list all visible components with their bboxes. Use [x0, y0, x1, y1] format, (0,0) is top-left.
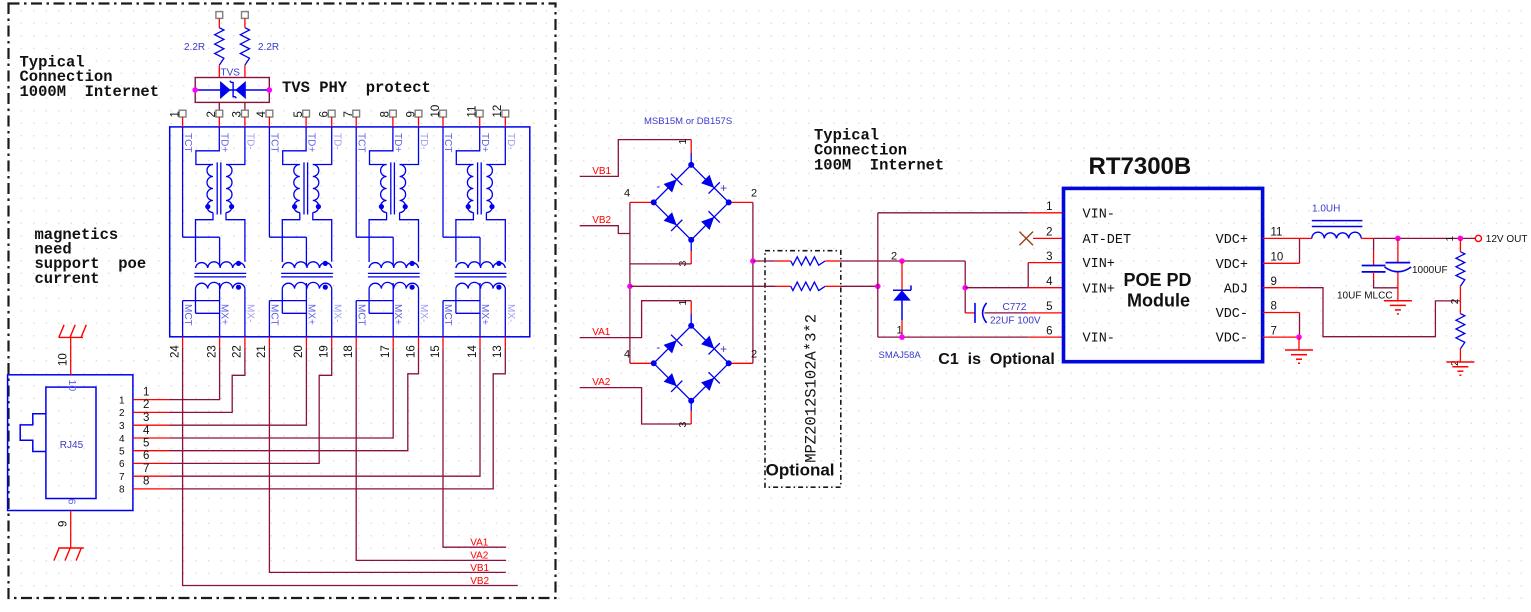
wire bridge plus rail vertical [752, 202, 754, 363]
svg-text:VB1: VB1 [470, 563, 489, 574]
svg-text:2: 2 [143, 399, 149, 411]
wire VIN- vertical [877, 213, 879, 337]
output terminal 12V OUT [1475, 235, 1481, 241]
pin 13 (magnetics bottom) [504, 337, 506, 348]
magnetics module outline [170, 127, 530, 337]
svg-text:9: 9 [58, 521, 70, 527]
svg-text:VIN-: VIN- [1083, 332, 1115, 347]
svg-text:5: 5 [293, 111, 305, 117]
svg-text:MCT: MCT [269, 304, 280, 326]
no-connect X on pin 2 [1019, 232, 1033, 246]
svg-text:5: 5 [119, 447, 125, 458]
svg-text:1: 1 [143, 386, 149, 398]
RJ45 pin 4 stub [133, 437, 170, 439]
svg-text:7: 7 [1271, 325, 1277, 337]
pin 24 (magnetics bottom) [182, 337, 184, 348]
svg-text:2: 2 [1450, 360, 1461, 366]
svg-text:RJ45: RJ45 [60, 440, 84, 451]
chassis ground (bottom) [54, 548, 84, 561]
svg-text:ADJ: ADJ [1224, 282, 1248, 297]
svg-text:2.2R: 2.2R [184, 42, 205, 53]
resistor MPZ1 [776, 260, 791, 262]
svg-text:VIN+: VIN+ [1083, 282, 1115, 297]
svg-text:TD+: TD+ [219, 133, 230, 152]
svg-text:Optional: Optional [766, 461, 835, 480]
svg-text:2: 2 [751, 188, 757, 200]
wire TVS loop to pin3 [244, 102, 246, 111]
svg-text:VA1: VA1 [592, 327, 611, 338]
wire net RJ45-2 to pin22 [170, 348, 245, 413]
RJ45 pin 2 stub [133, 411, 170, 413]
pin 7 stub [1263, 336, 1299, 338]
svg-text:4: 4 [624, 188, 630, 200]
wire net RJ45-4 to pin17 [170, 348, 394, 438]
wire RJ45 pin9 to chassis ground [70, 511, 72, 549]
RJ45 pin 1 stub [133, 399, 170, 401]
svg-text:10: 10 [58, 353, 70, 366]
svg-text:100M Internet: 100M Internet [814, 157, 944, 175]
svg-text:VDC+: VDC+ [1216, 233, 1248, 248]
svg-text:7: 7 [119, 472, 125, 483]
wire terminal to resistor R1 [218, 18, 220, 27]
wire net VA2 from pin18 [356, 348, 506, 561]
pin wire bridge1 right [729, 201, 753, 203]
svg-text:6: 6 [119, 459, 125, 470]
svg-text:MPZ2012S102A*3*2: MPZ2012S102A*3*2 [803, 314, 821, 463]
pin 20 (magnetics bottom) [305, 337, 307, 348]
RJ45 pin 8 stub [133, 488, 170, 490]
svg-text:24: 24 [169, 345, 181, 358]
svg-text:C1 is Optional: C1 is Optional [938, 351, 1054, 368]
svg-text:7: 7 [343, 111, 355, 117]
svg-text:3: 3 [143, 412, 149, 424]
svg-text:3: 3 [1046, 251, 1052, 263]
svg-text:VA1: VA1 [470, 538, 489, 549]
svg-text:4: 4 [143, 425, 150, 437]
wire net RJ45-8 to pin13 [170, 348, 506, 489]
inductor L1 1.0UH [1312, 220, 1363, 222]
svg-text:1: 1 [677, 139, 689, 145]
svg-text:MX-: MX- [418, 304, 429, 322]
earth ground G1 [1285, 350, 1313, 363]
svg-text:TCT: TCT [442, 133, 453, 152]
resistor R1 2.2R [215, 28, 224, 65]
wire net VA1 stub [580, 301, 692, 338]
svg-text:15: 15 [430, 345, 442, 358]
section border (1000M typical connection) [9, 4, 556, 599]
svg-text:10: 10 [66, 380, 78, 392]
svg-text:4: 4 [624, 349, 630, 361]
wire MPZ1 to SMAJ/VIN+ [840, 260, 965, 262]
RJ45 pin 6 stub [133, 462, 170, 464]
pin 18 (magnetics bottom) [355, 337, 357, 348]
svg-text:5: 5 [143, 438, 149, 450]
wire net RJ45-7 to pin14 [170, 348, 481, 477]
pin 17 (magnetics bottom) [392, 337, 394, 348]
svg-text:4: 4 [119, 434, 125, 445]
pin 11 (magnetics top) [476, 110, 483, 117]
wire RJ45 pin10 to chassis ground [70, 337, 72, 374]
svg-text:TCT: TCT [355, 133, 366, 152]
wire minus rail to MPZ2 [627, 284, 633, 290]
terminal square T2 [242, 12, 249, 19]
wire net RJ45-1 to pin23 [170, 348, 220, 400]
svg-text:MX-: MX- [331, 304, 342, 322]
resistor R2 2.2R [240, 28, 249, 65]
pin 9 (magnetics top) [415, 110, 422, 117]
wire VIN- to pin6 [878, 336, 1028, 338]
wire VIN- to pin1 [878, 212, 1028, 214]
bridge rectifier B1 [651, 162, 732, 243]
pin wire bridge2 left [630, 362, 654, 364]
svg-text:VA2: VA2 [592, 377, 611, 388]
TVS diode D5 (bidirectional) [195, 89, 199, 91]
svg-text:8: 8 [380, 111, 392, 117]
pin 12 (magnetics top) [502, 110, 509, 117]
IC U1 RT7300B outline [1064, 188, 1263, 361]
pin 9 stub [1263, 287, 1300, 289]
wire TVS loop to pin2 [218, 102, 220, 111]
pin 22 (magnetics bottom) [244, 337, 246, 348]
svg-text:TD+: TD+ [305, 133, 316, 152]
svg-text:VDC-: VDC- [1216, 307, 1248, 322]
svg-text:TD+: TD+ [392, 133, 403, 152]
svg-text:10: 10 [430, 105, 442, 118]
svg-text:+: + [720, 181, 727, 195]
wire net VB1 stub [580, 140, 692, 177]
transformer T4 [442, 127, 516, 337]
capacitor C2 10UF MLCC [1373, 238, 1375, 252]
svg-text:1000M Internet: 1000M Internet [20, 83, 160, 101]
svg-text:23: 23 [206, 345, 218, 358]
svg-text:1: 1 [897, 325, 903, 337]
wire ADJ feedback [1300, 288, 1461, 337]
svg-text:2: 2 [1450, 298, 1461, 304]
pin 10 stub + jumper [1263, 262, 1300, 264]
pin wire bridge1 bottom [690, 240, 692, 251]
svg-text:10UF MLCC: 10UF MLCC [1337, 290, 1393, 301]
svg-text:1: 1 [1046, 201, 1052, 213]
pin 15 (magnetics bottom) [442, 337, 444, 348]
svg-text:MCT: MCT [442, 304, 453, 326]
svg-text:MCT: MCT [355, 304, 366, 326]
diode D1 SMAJ58A [899, 258, 905, 264]
svg-text:VB1: VB1 [592, 166, 611, 177]
wire net VB2 from pin24 [183, 348, 518, 586]
svg-text:TD+: TD+ [479, 133, 490, 152]
wire net RJ45-3 to pin20 [170, 348, 307, 426]
pin wire bridge1 left [630, 201, 654, 203]
svg-text:8: 8 [119, 485, 125, 496]
capacitor C3 1000UF [1397, 238, 1399, 262]
earth ground G2 [1384, 301, 1412, 314]
TVS loop wire (maroon rectangle) [195, 78, 269, 103]
svg-text:1: 1 [169, 111, 181, 117]
terminal square T1 [216, 12, 223, 19]
wire resistor R2 to TVS loop [244, 65, 246, 77]
svg-text:2: 2 [206, 111, 218, 117]
svg-text:9: 9 [1271, 276, 1277, 288]
bridge rectifier B2 [651, 323, 732, 404]
svg-text:TD-: TD- [331, 133, 342, 150]
svg-text:3: 3 [119, 421, 125, 432]
svg-text:MX-: MX- [245, 304, 256, 322]
svg-text:Module: Module [1127, 291, 1190, 311]
pin wire bridge2 top [690, 301, 692, 314]
RJ45 latch notch [20, 414, 46, 452]
pin 23 (magnetics bottom) [219, 337, 221, 348]
svg-text:3: 3 [677, 422, 689, 428]
svg-text:22: 22 [232, 345, 244, 358]
wire net RJ45-6 to pin19 [170, 348, 332, 464]
pin 3 (magnetics top) [242, 110, 249, 117]
svg-text:MX+: MX+ [305, 304, 316, 325]
capacitor C772 22UF 100V [965, 312, 975, 314]
svg-text:18: 18 [343, 345, 355, 358]
svg-text:4: 4 [1046, 276, 1053, 288]
svg-text:VDC+: VDC+ [1216, 258, 1248, 273]
transformer T1 [182, 127, 256, 337]
svg-text:TD-: TD- [418, 133, 429, 150]
pin 2 (magnetics top) [216, 110, 223, 117]
svg-text:TD-: TD- [505, 133, 516, 150]
wire inductor to output rail [1361, 237, 1373, 239]
svg-text:1: 1 [677, 300, 689, 306]
svg-text:-: - [656, 340, 660, 354]
pin 11 stub [1263, 237, 1300, 239]
wire bridge minus rail vertical [629, 202, 631, 363]
svg-text:MSB15M or DB157S: MSB15M or DB157S [644, 116, 732, 127]
svg-text:RT7300B: RT7300B [1089, 153, 1192, 180]
wire net VB1 from pin21 [269, 348, 505, 573]
svg-text:VIN-: VIN- [1083, 207, 1115, 222]
transformer T3 [355, 127, 429, 337]
svg-text:current: current [35, 270, 100, 288]
svg-text:3: 3 [232, 111, 244, 117]
wire net RJ45-5 to pin16 [170, 348, 419, 451]
pin 8 (magnetics top) [390, 110, 397, 117]
transformer T2 [269, 127, 343, 337]
svg-text:11: 11 [467, 106, 479, 118]
svg-text:AT-DET: AT-DET [1083, 233, 1132, 248]
svg-text:POE PD: POE PD [1123, 270, 1191, 290]
svg-text:2: 2 [891, 250, 897, 262]
wire plus rail to MPZ1 [750, 258, 756, 264]
svg-text:14: 14 [467, 345, 479, 358]
svg-text:2.2R: 2.2R [258, 42, 279, 53]
resistor MPZ2 [776, 285, 791, 287]
svg-text:1: 1 [1445, 236, 1456, 242]
svg-text:6: 6 [1046, 325, 1052, 337]
RJ45 pin 7 stub [133, 475, 170, 477]
wire net VB2 stub [580, 226, 630, 234]
svg-text:TVS PHY protect: TVS PHY protect [282, 79, 431, 97]
svg-text:16: 16 [405, 345, 417, 358]
svg-text:TCT: TCT [269, 133, 280, 152]
svg-text:MCT: MCT [182, 304, 193, 326]
svg-text:7: 7 [143, 463, 149, 475]
svg-text:1.0UH: 1.0UH [1312, 204, 1340, 215]
wire VDC+ to inductor [1300, 237, 1312, 239]
junction dot TVS left [192, 87, 198, 93]
svg-text:VA2: VA2 [470, 551, 489, 562]
chassis ground (top) [59, 325, 87, 338]
svg-text:20: 20 [293, 345, 305, 358]
pin wire bridge2 bottom [690, 401, 692, 411]
svg-text:2: 2 [119, 408, 125, 419]
pin 16 (magnetics bottom) [418, 337, 420, 348]
svg-text:1: 1 [119, 395, 125, 406]
connector RJ45 outline [8, 375, 133, 511]
svg-text:MX+: MX+ [392, 304, 403, 325]
svg-text:5: 5 [1046, 301, 1052, 313]
pin 14 (magnetics bottom) [479, 337, 481, 348]
svg-text:MX+: MX+ [219, 304, 230, 325]
earth ground G3 [1446, 362, 1474, 375]
svg-text:-: - [656, 179, 660, 193]
RJ45 pin 5 stub [133, 450, 170, 452]
resistor R3 (upper divider) [1459, 238, 1461, 251]
pin 4 (magnetics top) [266, 110, 273, 117]
svg-text:6: 6 [143, 450, 149, 462]
svg-text:17: 17 [380, 345, 392, 358]
wire terminal to resistor R2 [244, 18, 246, 27]
svg-text:TD-: TD- [245, 133, 256, 150]
svg-text:8: 8 [1271, 301, 1277, 313]
svg-text:9: 9 [67, 499, 79, 505]
svg-text:VB2: VB2 [470, 576, 489, 587]
wire VIN+ to pins 3-4 jumper [965, 287, 1028, 289]
pin 1 (magnetics top) [179, 110, 186, 117]
wire net VA2 stub [580, 388, 692, 424]
svg-text:11: 11 [1271, 227, 1283, 239]
pin wire bridge1 top [690, 140, 692, 153]
svg-text:12V OUT: 12V OUT [1486, 234, 1528, 245]
wire pin7 to ground [1298, 337, 1300, 350]
svg-text:TCT: TCT [182, 133, 193, 152]
wire VIN+ vertical [964, 261, 966, 313]
resistor R4 (lower divider) [1459, 301, 1461, 314]
svg-text:8: 8 [143, 476, 149, 488]
pin 7 (magnetics top) [353, 110, 360, 117]
svg-text:12: 12 [492, 105, 504, 118]
svg-text:9: 9 [405, 111, 417, 117]
svg-text:MX+: MX+ [479, 304, 490, 325]
svg-text:MX-: MX- [505, 304, 516, 322]
svg-text:2: 2 [1046, 227, 1052, 239]
svg-text:VDC-: VDC- [1216, 332, 1248, 347]
pin 19 (magnetics bottom) [331, 337, 333, 348]
wire net VA1 from pin15 [443, 348, 506, 548]
junction dot TVS right [267, 87, 273, 93]
RJ45 inner body [46, 387, 96, 498]
svg-text:VB2: VB2 [592, 215, 611, 226]
pin 5 (magnetics top) [303, 110, 310, 117]
pin 21 (magnetics bottom) [268, 337, 270, 348]
svg-text:4: 4 [256, 111, 268, 118]
pin wire bridge2 right [729, 362, 753, 364]
svg-text:10: 10 [1271, 252, 1284, 264]
pin 10 (magnetics top) [440, 110, 447, 117]
svg-text:13: 13 [492, 345, 504, 358]
optional section box [765, 251, 841, 488]
RJ45 pin 3 stub [133, 424, 170, 426]
wire MPZ2 to VIN- rail [840, 285, 878, 287]
wire bridge1 bottom to minus rail [630, 263, 691, 265]
svg-text:C772: C772 [1003, 302, 1027, 313]
svg-text:19: 19 [319, 345, 331, 358]
svg-text:21: 21 [256, 345, 268, 358]
wire resistor R1 to TVS loop [218, 65, 220, 77]
svg-text:1000UF: 1000UF [1412, 265, 1448, 276]
svg-text:+: + [720, 342, 727, 356]
pin 8 stub + jumper [1263, 312, 1300, 314]
svg-text:VIN+: VIN+ [1083, 257, 1115, 272]
svg-text:SMAJ58A: SMAJ58A [879, 350, 922, 361]
pin 6 (magnetics top) [328, 110, 335, 117]
svg-text:6: 6 [319, 111, 331, 117]
svg-text:22UF 100V: 22UF 100V [990, 316, 1041, 327]
svg-text:2: 2 [751, 349, 757, 361]
